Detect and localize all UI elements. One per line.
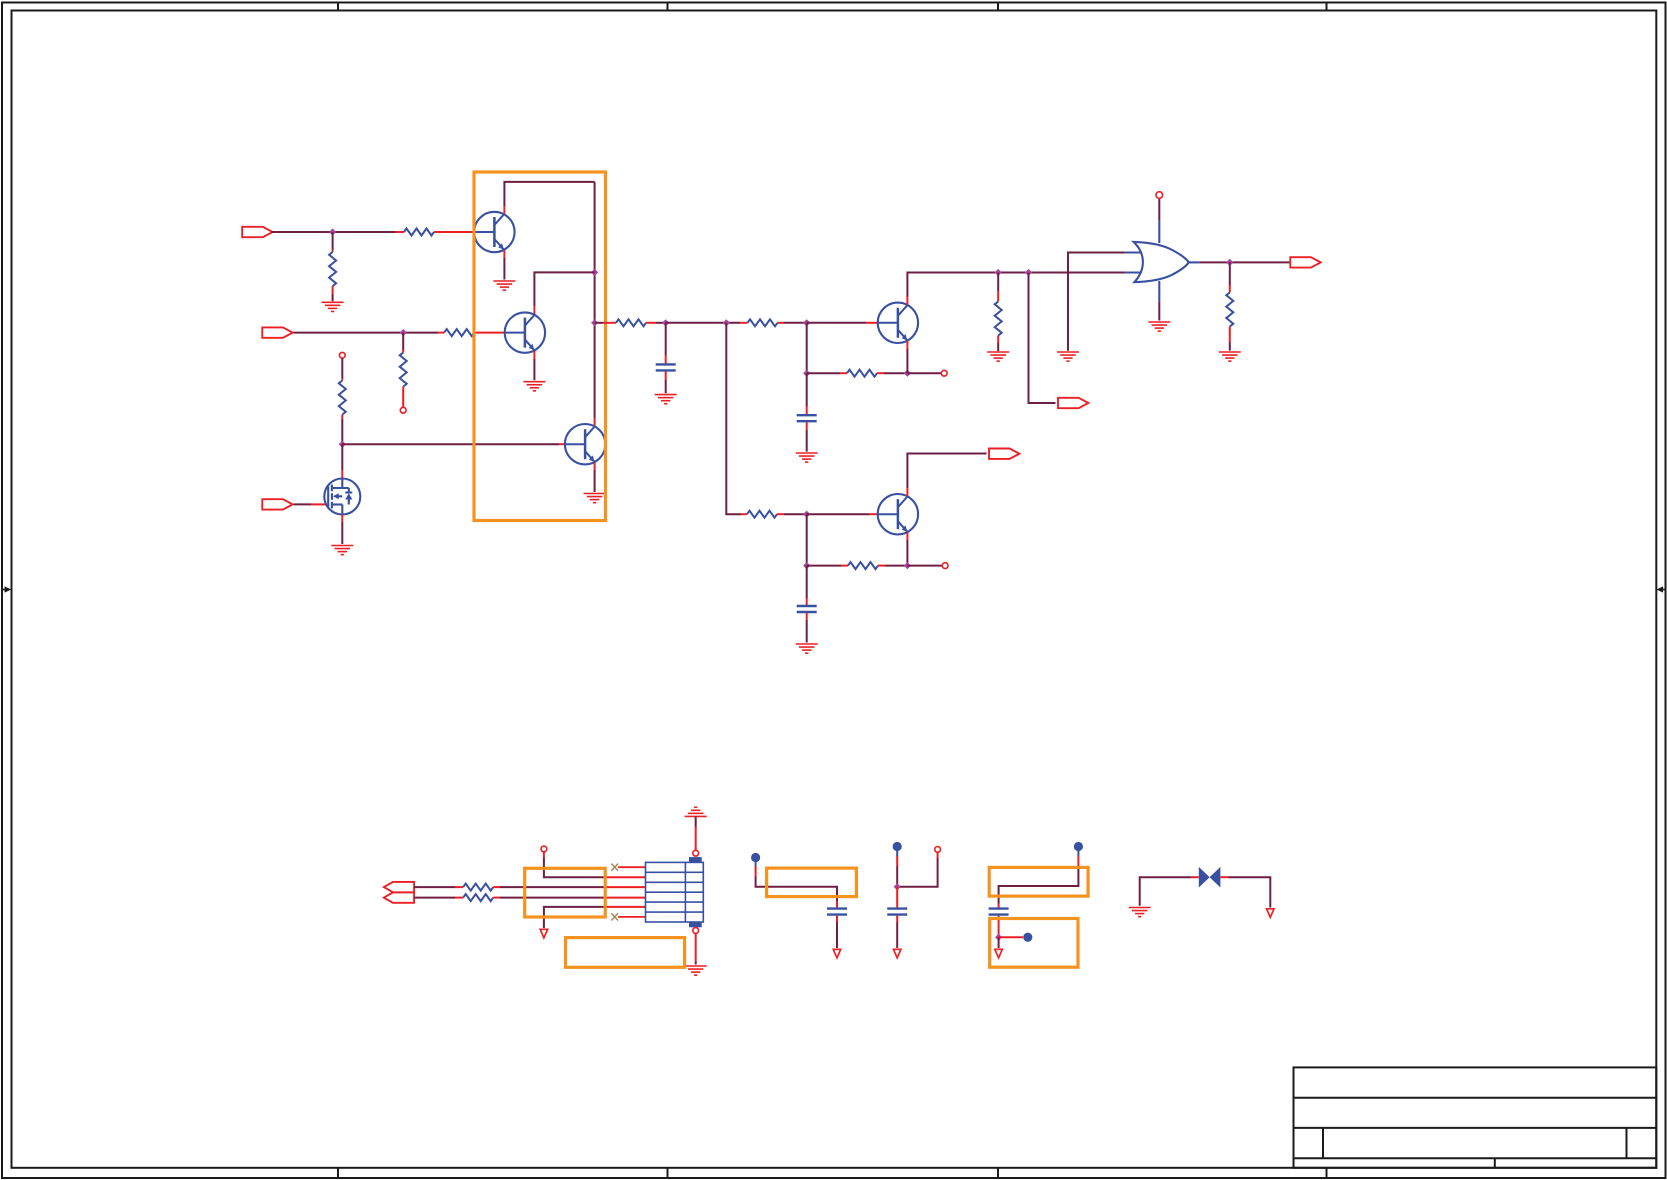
wire IG1 to CN1 top: [695, 816, 697, 850]
ground G12: [796, 644, 818, 653]
zone tick bottom 1: [337, 1168, 339, 1178]
harness port P7 (double): [384, 882, 414, 903]
wire J14 down to C3: [806, 566, 808, 606]
resistor R1: [404, 229, 434, 236]
ground G1: [322, 302, 344, 311]
wire R3 to J4: [646, 322, 666, 324]
wire J6 down to M1 drain: [341, 444, 343, 479]
node J12: [1226, 259, 1233, 266]
net class box B6: [990, 919, 1078, 968]
zone tick bottom 4: [1326, 1168, 1328, 1178]
wire Q3 emitter to ground: [594, 462, 596, 492]
port P6: [989, 449, 1019, 459]
transistor Q2: [505, 312, 545, 352]
node J9: [904, 370, 911, 377]
wire J13 down to J14: [806, 514, 808, 565]
wire U1 ground pin: [1158, 301, 1160, 320]
wire J6 to Q3 base: [342, 443, 565, 445]
wire J7 down to J8: [806, 323, 808, 373]
node J6: [339, 441, 346, 448]
wire J7 to Q4 base: [807, 322, 878, 324]
zone arrow left: [1, 586, 11, 592]
pin PN8: [693, 928, 699, 934]
wire OR input A from ground: [1068, 253, 1126, 351]
node J17: [995, 934, 1002, 941]
amplifier group box B1: [474, 172, 606, 521]
pin PN3: [941, 370, 947, 376]
wire J15 to pin PN5: [907, 565, 942, 567]
node J13: [803, 511, 810, 518]
wire R10 to ground: [1229, 327, 1231, 351]
wire Jm down to R11: [726, 323, 747, 514]
ground G14: [1129, 908, 1151, 917]
wire R2 to ground: [332, 286, 334, 301]
wire Q2 emitter to ground: [533, 351, 535, 380]
ground G2: [493, 281, 515, 290]
node J10: [995, 269, 1002, 276]
power flag PF2: [893, 842, 902, 851]
node Jm: [723, 319, 730, 326]
zone tick top 2: [667, 3, 669, 11]
capacitor C1: [656, 364, 676, 370]
diode D1 TVS: [1199, 867, 1221, 888]
wire PN2 to R6: [341, 358, 343, 381]
ground G11: [1219, 352, 1241, 361]
zone tick top 3: [997, 3, 999, 11]
wire J12 to R10: [1229, 262, 1231, 292]
pin PN9: [935, 847, 941, 853]
resistor R2: [329, 252, 336, 286]
wire P3 to M1 gate: [294, 503, 326, 505]
node J7: [803, 319, 810, 326]
wire C6 to J17: [998, 916, 1000, 938]
wire J17 to arrow DA4: [998, 937, 1000, 948]
resistor R12: [848, 562, 878, 569]
capacitor C6: [989, 909, 1009, 915]
node J3: [591, 319, 598, 326]
capacitor C4: [827, 909, 847, 915]
wire P2 to R4: [294, 332, 445, 334]
wire J8 down to C2: [806, 373, 808, 414]
wire P7a to R13: [414, 886, 463, 888]
power port arrow DA5: [1267, 909, 1274, 918]
wire D1 to arrow DA5: [1220, 877, 1270, 907]
zone tick top 4: [1326, 3, 1328, 11]
power flag PF4: [1023, 933, 1032, 942]
resistor R7: [748, 319, 778, 326]
resistor R11: [747, 511, 777, 518]
wire J14 to R12: [807, 565, 848, 567]
resistor R6: [339, 381, 346, 415]
port P3: [262, 499, 292, 509]
wire C4 to arrow DA2: [836, 916, 838, 948]
wire R13 to CN1 pin 3: [493, 886, 645, 888]
ground G4: [584, 494, 606, 503]
wire PF1 to C4: [756, 861, 837, 908]
wire J11 down to port P4: [1029, 273, 1056, 404]
wire Q1 collector up and over: [504, 182, 594, 214]
resistor R3: [616, 319, 646, 326]
capacitor C3: [797, 606, 817, 612]
resistor R9: [995, 302, 1002, 336]
port P1: [242, 227, 272, 237]
wire PN8 to ground: [695, 933, 697, 964]
node J2: [591, 269, 598, 276]
wire PF3 to C6: [999, 850, 1079, 908]
pin PN2: [339, 352, 345, 358]
wire X2 stub: [618, 916, 645, 918]
node J1: [329, 228, 336, 235]
port P2: [262, 327, 292, 337]
wire J13 to Q5 base: [807, 513, 878, 515]
ground G5: [331, 546, 353, 555]
node J5: [400, 329, 407, 336]
power port arrow DA2: [833, 949, 840, 958]
wire P7b to R14: [414, 897, 463, 899]
pin PN6: [541, 846, 547, 852]
wire C5 to arrow DA3: [896, 916, 898, 948]
zone arrow right: [1656, 586, 1666, 592]
no-connect X2: [611, 913, 618, 920]
wire R9 to ground: [997, 336, 999, 352]
wire R12 to J15: [878, 565, 907, 567]
wire PN6 to CN1 pin 2: [544, 852, 646, 878]
node J15: [904, 562, 911, 569]
resistor R10: [1226, 292, 1233, 326]
wire J4 to R7: [666, 322, 748, 324]
wire Q4 emitter to J9: [906, 341, 908, 373]
wire PN9 to J16: [897, 852, 937, 887]
wire R4 to Q2 base: [474, 332, 505, 334]
power flag PF3: [1074, 842, 1083, 851]
pin PN4 power: [1156, 192, 1163, 199]
node J16: [894, 883, 901, 890]
transistor Q4: [878, 303, 918, 343]
wire J4 down to C1: [665, 323, 667, 364]
net class box B2: [525, 868, 606, 917]
ground G13: [685, 966, 707, 975]
net class box B5: [989, 867, 1088, 896]
node J8: [803, 370, 810, 377]
power port arrow DA1: [540, 929, 547, 938]
wire C2 to ground: [806, 422, 808, 451]
transistor Q5: [878, 494, 918, 534]
wire J9 to pin PN3: [907, 372, 941, 374]
port P5: [1290, 257, 1320, 267]
wire Q1 emitter to ground: [503, 250, 505, 279]
node J11: [1025, 269, 1032, 276]
connector CN1: [646, 857, 704, 927]
power flag PF1: [751, 853, 760, 862]
wire Q5 emitter to J15: [906, 532, 908, 565]
ground G6: [655, 395, 677, 404]
transistor Q3: [565, 424, 605, 464]
wire J2 to Q2 collector: [534, 272, 594, 314]
capacitor C2: [797, 415, 817, 421]
ground G7: [796, 453, 818, 462]
wire P1 to R1: [272, 231, 404, 233]
inverted ground IG1: [685, 807, 707, 816]
capacitor C5: [887, 909, 907, 915]
wire J5 down to R5: [402, 333, 404, 353]
wire CN1 pin 5 to arrow: [544, 907, 646, 928]
wire Q5 collector to port P6: [907, 454, 986, 497]
transistor Q1: [474, 212, 514, 252]
resistor R14: [463, 894, 493, 901]
wire G14 to diode D1: [1140, 877, 1199, 906]
ground G3: [523, 382, 545, 391]
wire J1 down: [332, 232, 334, 252]
wire J8 to R8: [807, 372, 847, 374]
wire J3 to R3: [595, 322, 616, 324]
resistor R8: [847, 370, 877, 377]
node J14: [803, 562, 810, 569]
wire C3 to ground: [806, 613, 808, 643]
mosfet M1: [324, 479, 360, 515]
wire R11 to J13: [777, 513, 807, 515]
power port arrow DA3: [894, 949, 901, 958]
wire R8 to J9: [877, 372, 907, 374]
node J4: [662, 319, 669, 326]
wire U1 output to port P5: [1199, 261, 1290, 263]
net class box B4: [767, 868, 857, 897]
zone tick bottom 3: [997, 1168, 999, 1178]
power port arrow DA4: [995, 949, 1002, 958]
pin PN1: [400, 407, 406, 413]
no-connect X1: [611, 864, 618, 871]
wire R5 to pin: [402, 387, 404, 408]
wire M1 source to ground: [341, 515, 343, 545]
ground G8: [987, 352, 1009, 361]
title block: [1294, 1067, 1657, 1167]
wire vertical bus Q1/Q2/Q3 collectors: [594, 182, 596, 426]
ground G9: [1057, 352, 1079, 361]
wire R6 to J6: [341, 415, 343, 445]
wire J17 to power flag PF4: [999, 936, 1023, 938]
wire Q4 collector rail: [907, 273, 1125, 305]
resistor R5: [400, 353, 407, 387]
zone tick bottom 2: [667, 1168, 669, 1178]
wire C1 to ground: [665, 371, 667, 393]
wire R14 to CN1 pin 4: [493, 897, 645, 899]
resistor R13: [463, 884, 493, 891]
wire U1 power pin: [1158, 198, 1160, 221]
wire R1 to Q1 base: [434, 231, 475, 233]
or-gate U1: [1125, 221, 1200, 302]
port P4: [1058, 398, 1088, 408]
wire PF2 to J16: [896, 850, 898, 887]
wire R7 to J7: [778, 322, 807, 324]
zone tick top 1: [337, 3, 339, 11]
ground G10: [1148, 322, 1170, 331]
pin PN7: [693, 850, 699, 856]
resistor R4: [444, 329, 474, 336]
net class box B3: [566, 938, 685, 968]
pin PN5: [942, 563, 948, 569]
wire X1 stub: [618, 866, 645, 868]
wire J16 to C5: [896, 887, 898, 908]
wire J10 to R9: [997, 273, 999, 302]
